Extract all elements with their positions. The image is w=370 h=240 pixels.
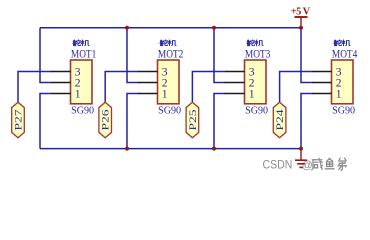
connector MOT2 body xyxy=(158,60,180,104)
svg-text:SG90: SG90 xyxy=(332,105,355,116)
pin 1 stub of MOT1 xyxy=(51,93,71,95)
label 舵机 of MOT1 xyxy=(73,40,89,46)
svg-text:MOT3: MOT3 xyxy=(245,46,270,60)
svg-text:MOT1: MOT1 xyxy=(71,46,96,60)
svg-text:1: 1 xyxy=(162,87,168,100)
pin 2 stub of MOT2 xyxy=(138,82,158,84)
wire P25 to MOT3 pin 3 xyxy=(192,72,225,103)
svg-text:1: 1 xyxy=(336,87,342,100)
junction on GND rail at x=127 xyxy=(125,147,129,151)
svg-text:CSDN: CSDN xyxy=(263,157,293,171)
net flag P24 body xyxy=(273,102,286,138)
ground bar 2 xyxy=(297,163,305,165)
ground stub xyxy=(300,149,302,161)
label 舵机 of MOT4 xyxy=(334,40,350,46)
junction on +5V rail at x=301 xyxy=(299,26,303,30)
ground bar 3 xyxy=(299,166,302,168)
junction on GND rail at x=214 xyxy=(212,147,216,151)
svg-text:P25: P25 xyxy=(188,109,199,130)
wire +5V drop to MOT3 pin 2 xyxy=(214,28,226,83)
pin 2 stub of MOT4 xyxy=(312,82,332,84)
connector MOT3 body xyxy=(245,60,267,104)
wire GND bottom rail xyxy=(40,148,301,150)
svg-text:+5 V: +5 V xyxy=(291,6,311,17)
wire +5V drop to MOT1 pin 2 xyxy=(40,28,52,83)
junction on GND rail at x=301 xyxy=(299,147,303,151)
svg-text:P27: P27 xyxy=(13,109,24,130)
svg-text:1: 1 xyxy=(75,87,81,100)
junction on +5V rail at x=127 xyxy=(125,26,129,30)
power symbol +5V stub xyxy=(300,17,302,28)
watermark 咸鱼弟 xyxy=(312,158,347,170)
wire P26 to MOT2 pin 3 xyxy=(105,72,138,103)
svg-text:P26: P26 xyxy=(101,109,112,130)
wire MOT1 pin 1 to GND rail xyxy=(40,94,52,149)
wire +5V drop to MOT2 pin 2 xyxy=(127,28,139,83)
label 舵机 of MOT3 xyxy=(247,40,263,46)
connector MOT1 body xyxy=(71,60,93,104)
svg-text:MOT2: MOT2 xyxy=(158,46,183,60)
pin 3 stub of MOT2 xyxy=(138,71,158,73)
ground bar 1 xyxy=(295,159,307,161)
pin 3 stub of MOT3 xyxy=(225,71,245,73)
svg-text:@: @ xyxy=(302,159,313,171)
label 舵机 of MOT2 xyxy=(160,40,176,46)
pin 2 stub of MOT3 xyxy=(225,82,245,84)
svg-text:P24: P24 xyxy=(275,109,286,130)
svg-text:SG90: SG90 xyxy=(245,105,268,116)
connector MOT4 body xyxy=(332,60,354,104)
net flag P25 body xyxy=(186,102,199,138)
wire +5V top rail xyxy=(40,27,301,29)
junction on +5V rail at x=214 xyxy=(212,26,216,30)
wire P27 to MOT1 pin 3 xyxy=(18,72,52,103)
power symbol +5V bar xyxy=(295,16,308,18)
wire MOT4 pin 1 to GND rail xyxy=(301,94,313,149)
pin 1 stub of MOT2 xyxy=(138,93,158,95)
wire P24 to MOT4 pin 3 xyxy=(280,72,313,103)
svg-text:1: 1 xyxy=(249,87,255,100)
net flag P26 body xyxy=(99,102,112,138)
wire MOT2 pin 1 to GND rail xyxy=(127,94,139,149)
net flag P27 body xyxy=(12,102,25,138)
pin 2 stub of MOT1 xyxy=(51,82,71,84)
pin 3 stub of MOT4 xyxy=(312,71,332,73)
pin 1 stub of MOT3 xyxy=(225,93,245,95)
pin 1 stub of MOT4 xyxy=(312,93,332,95)
pin 3 stub of MOT1 xyxy=(51,71,71,73)
svg-text:SG90: SG90 xyxy=(71,105,94,116)
svg-text:MOT4: MOT4 xyxy=(332,46,357,60)
wire +5V drop to MOT4 pin 2 xyxy=(301,28,313,83)
svg-text:SG90: SG90 xyxy=(158,105,181,116)
wire MOT3 pin 1 to GND rail xyxy=(214,94,226,149)
